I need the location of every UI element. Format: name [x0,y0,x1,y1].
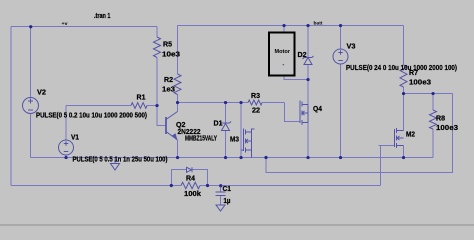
svg-text:10e3: 10e3 [162,52,180,59]
svg-text:R4: R4 [186,176,195,183]
svg-text:M3: M3 [230,137,239,144]
svg-text:PULSE(0 5 0.2 10u 10u 1000 200: PULSE(0 5 0.2 10u 10u 1000 2000 500) [36,113,147,120]
svg-text:R5: R5 [163,42,172,49]
svg-text:22: 22 [252,108,260,115]
svg-text:100e3: 100e3 [436,125,458,132]
svg-text:MMBZ15VALY: MMBZ15VALY [185,136,217,143]
svg-text:100k: 100k [184,191,201,198]
svg-text:V1: V1 [71,135,79,142]
svg-text:Q4: Q4 [313,106,322,113]
svg-text:D2: D2 [298,52,307,59]
svg-text:PULSE(0 24 0 10u 10u 1000 2000: PULSE(0 24 0 10u 10u 1000 2000 100) [346,65,457,72]
svg-text:D1: D1 [214,121,223,128]
svg-text:V3: V3 [347,44,356,51]
svg-text:V2: V2 [37,90,46,97]
svg-text:.tran 1: .tran 1 [94,13,111,20]
svg-text:R1: R1 [137,95,146,102]
svg-text:100e3: 100e3 [409,80,431,87]
svg-text:PULSE(0 5 0.5 1n 1n 25u 50u 10: PULSE(0 5 0.5 1n 1n 25u 50u 100) [73,157,168,164]
svg-text:R7: R7 [409,70,418,77]
svg-text:R2: R2 [164,77,173,84]
svg-text:batt: batt [314,21,324,26]
svg-text:Motor: Motor [275,49,291,55]
svg-text:M2: M2 [406,132,415,139]
svg-text:R8: R8 [436,116,445,123]
svg-text:+v: +v [62,21,69,26]
svg-text:C1: C1 [223,186,232,193]
svg-text:1µ: 1µ [224,198,231,205]
svg-text:R3: R3 [251,93,260,100]
svg-text:1e3: 1e3 [162,87,175,94]
svg-text:Q2: Q2 [176,122,186,129]
svg-text:-: - [283,62,285,68]
